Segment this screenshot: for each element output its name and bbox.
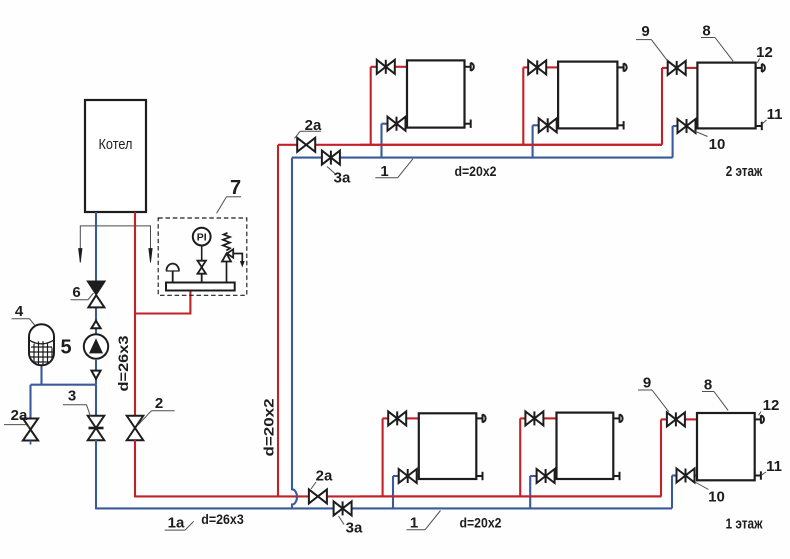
- svg-text:1: 1: [410, 515, 418, 532]
- air vent (12) 2.1: [465, 63, 474, 71]
- wire valve to radiator 1.2: [543, 417, 556, 419]
- underline for 2a floor2: [300, 130, 321, 132]
- wire to return valve 2.1: [382, 123, 388, 125]
- wire return valve to radiator 1.2: [555, 475, 557, 477]
- svg-text:d=20x2: d=20x2: [455, 163, 497, 179]
- wire to supply valve 1.3: [661, 418, 667, 420]
- svg-text:2a: 2a: [11, 407, 28, 424]
- flow arrow right (down): [149, 249, 152, 263]
- underline for 8 floor2: [701, 37, 715, 39]
- wire to supply valve 2.2: [523, 66, 528, 68]
- leader for 10 floor1: [695, 482, 709, 490]
- radiator supply valve (9) 2.2: [528, 60, 546, 74]
- wire supply main floor 1: [135, 495, 662, 497]
- svg-text:d=26x3: d=26x3: [115, 335, 131, 391]
- plug (11) 2.2: [617, 121, 623, 129]
- wire valve to radiator 1.3: [685, 418, 697, 420]
- wire drain branch down: [29, 385, 31, 419]
- leader for 2a left: [4, 425, 30, 428]
- wire return drop 2.1: [380, 124, 382, 158]
- valve 2: [127, 416, 144, 441]
- svg-text:d=20x2: d=20x2: [460, 515, 502, 531]
- svg-text:12: 12: [763, 397, 780, 414]
- valve 6 (check/safety valve): [88, 282, 104, 308]
- plug (11) 2.1: [465, 120, 471, 128]
- wire return main floor 1: [96, 507, 672, 509]
- leader for 2: [138, 411, 152, 426]
- gauge valve (small): [198, 261, 206, 283]
- leader for 1 floor1: [425, 511, 441, 530]
- expansion tank 4: [28, 324, 55, 366]
- wire to supply valve 2.1: [371, 66, 377, 68]
- svg-text:2: 2: [155, 395, 163, 412]
- wire to supply valve 2.3: [662, 67, 668, 69]
- air vent dome: [166, 264, 180, 283]
- air vent (12) 1.3: [755, 415, 764, 423]
- svg-text:8: 8: [704, 377, 712, 394]
- svg-text:PI: PI: [197, 232, 207, 244]
- wire to supply valve 1.2: [520, 417, 525, 419]
- wire valve to radiator 2.1: [395, 66, 407, 68]
- wire return drop 1.3: [671, 476, 673, 509]
- wire valve to radiator 2.3: [686, 67, 698, 69]
- valve 3: [88, 416, 105, 441]
- leader for 9 floor2: [651, 40, 667, 61]
- svg-text:9: 9: [643, 375, 651, 392]
- wire junction to valve 3: [95, 385, 97, 417]
- svg-text:12: 12: [756, 44, 773, 61]
- wire return valve to radiator 2.1: [406, 123, 408, 125]
- svg-text:8: 8: [702, 23, 710, 40]
- radiator supply valve (9) 2.1: [377, 60, 395, 74]
- pump 5 (circle with triangle): [84, 334, 108, 358]
- wire return drop 1.2: [529, 476, 531, 508]
- underline for 1 floor2: [375, 177, 397, 179]
- radiator 2.1: [407, 60, 465, 127]
- wire valve 2 down to supply main: [134, 440, 136, 497]
- wire supply drop 1.3: [660, 419, 662, 496]
- valve 2a (floor 1): [309, 489, 327, 503]
- wire return drop 2.3: [672, 126, 674, 158]
- svg-text:11: 11: [766, 458, 782, 475]
- svg-text:Котел: Котел: [99, 136, 133, 153]
- svg-text:7: 7: [230, 177, 241, 199]
- leader for 4: [12, 319, 36, 326]
- svg-text:4: 4: [15, 303, 24, 320]
- leader for 6: [71, 293, 94, 300]
- radiator supply valve (9) 1.2: [525, 411, 543, 425]
- svg-text:2a: 2a: [316, 468, 333, 485]
- svg-text:3a: 3a: [346, 520, 363, 537]
- air vent (12) 2.3: [756, 64, 765, 72]
- radiator return valve (10) 1.3: [677, 469, 695, 483]
- wire return valve to radiator 1.3: [695, 474, 698, 476]
- leader for 2a floor1: [311, 482, 316, 489]
- svg-text:10: 10: [709, 136, 726, 153]
- leader for 3a floor2: [327, 167, 336, 175]
- radiator 2.3: [697, 63, 755, 129]
- svg-text:9: 9: [641, 23, 649, 40]
- leader for 3a floor1: [339, 516, 345, 525]
- flow direction bracket line: [80, 226, 150, 262]
- check valve (triangle) above pump: [91, 321, 100, 328]
- valve 3a (floor 1): [334, 501, 352, 515]
- valve 2a (floor 2): [297, 138, 315, 152]
- wire return valve to radiator 2.3: [696, 125, 698, 127]
- radiator return valve (10) 2.1: [388, 117, 406, 131]
- wire to return valve 1.1: [393, 475, 399, 477]
- wire valve to radiator 2.2: [546, 66, 558, 68]
- radiator supply valve (9) 2.3: [668, 61, 686, 75]
- svg-text:11: 11: [767, 106, 783, 123]
- wire supply drop 1.1: [382, 418, 384, 496]
- radiator return valve (10) 2.2: [539, 118, 557, 132]
- leader for 9 floor1: [652, 390, 669, 412]
- wire supply drop 2.3: [661, 68, 663, 145]
- wire to supply valve 1.1: [383, 417, 389, 419]
- wire valve6 to pump: [95, 307, 97, 337]
- valve 3a (floor 2): [322, 151, 340, 165]
- air vent (12) 1.1: [476, 414, 485, 422]
- radiator 2.2: [558, 62, 617, 129]
- air vent (12) 2.2: [617, 63, 626, 71]
- underline for 7: [227, 196, 242, 198]
- wire return drop 1.1: [392, 476, 394, 508]
- leader for 2a floor2: [295, 131, 301, 138]
- wire supply drop 2.1: [370, 67, 372, 145]
- wire return valve to radiator 2.2: [557, 124, 558, 126]
- radiator return valve (10) 2.3: [678, 119, 696, 133]
- wire valve to radiator 1.1: [406, 417, 419, 419]
- wire tank drop: [40, 365, 42, 385]
- underline for 2: [152, 410, 175, 412]
- svg-text:3: 3: [68, 388, 76, 405]
- svg-text:1 этаж: 1 этаж: [726, 516, 763, 533]
- safety group 7 dashed box: [158, 218, 247, 295]
- flow arrow left (down): [79, 249, 82, 263]
- wire to return valve 2.2: [533, 124, 539, 126]
- wire supply drop 2.2: [522, 67, 524, 144]
- leader for 3: [63, 405, 91, 417]
- svg-text:2 этаж: 2 этаж: [726, 163, 763, 180]
- plug (11) 1.2: [613, 472, 619, 480]
- radiator 1.2: [557, 413, 614, 479]
- boiler (Котел): [85, 100, 146, 212]
- manifold bar of safety group: [166, 283, 235, 291]
- plug (11) 1.3: [755, 471, 761, 479]
- svg-text:d=26x3: d=26x3: [201, 511, 244, 527]
- underline for 1a: [165, 529, 185, 531]
- svg-text:6: 6: [72, 284, 80, 301]
- wire return main floor 2: [292, 157, 673, 159]
- wire supply drop 1.2: [519, 418, 521, 496]
- radiator 1.3: [697, 413, 755, 480]
- leader for 1a: [185, 521, 194, 530]
- svg-text:5: 5: [60, 337, 71, 359]
- valve 2a (drain, left): [23, 419, 38, 441]
- leader for 8 floor1: [714, 392, 728, 411]
- wire supply main floor 2 (over crossings): [360, 144, 662, 146]
- wire return drop 2.2: [532, 125, 534, 157]
- pressure gauge PI: [193, 228, 211, 261]
- radiator return valve (10) 1.2: [537, 469, 555, 483]
- leader for 7: [217, 197, 227, 214]
- wire junction horizontal (tank branch): [31, 384, 97, 386]
- wire pump to junction: [95, 360, 97, 385]
- wire return riser (blue) with hop over red main: [292, 158, 297, 509]
- wire supply riser d=20x2: [277, 145, 279, 497]
- leader for 1 floor2: [398, 159, 413, 178]
- underline for 8 floor1: [702, 391, 714, 393]
- radiator supply valve (9) 1.3: [667, 412, 685, 426]
- leader for 10 floor2: [694, 131, 708, 137]
- underline for 1 floor1: [407, 529, 426, 531]
- svg-text:1a: 1a: [168, 515, 185, 532]
- leader for 8 floor2: [715, 38, 733, 62]
- wire supply main floor 1 (over crossings): [360, 495, 662, 497]
- underline for 9 floor1: [638, 389, 652, 391]
- svg-text:3a: 3a: [334, 170, 351, 187]
- safety relief valve with spring: [222, 233, 245, 283]
- radiator return valve (10) 1.1: [399, 469, 417, 483]
- wire return valve to radiator 1.1: [417, 475, 419, 477]
- leader for 12 floor1: [759, 412, 762, 416]
- leader for 11 floor1: [762, 472, 766, 475]
- radiator supply valve (9) 1.1: [388, 411, 406, 425]
- wire to return valve 1.3: [672, 474, 677, 476]
- radiator 1.1: [419, 413, 477, 479]
- wire to return valve 2.3: [673, 125, 678, 127]
- air vent (12) 1.2: [613, 414, 622, 422]
- underline for 9 floor2: [636, 39, 651, 41]
- wire drain stub: [30, 441, 32, 445]
- leader for 12 floor2: [758, 59, 760, 63]
- svg-text:10: 10: [708, 489, 725, 506]
- wire boiler supply (red) down: [134, 212, 136, 417]
- wire to return valve 1.2: [530, 475, 536, 477]
- wire valve 3 down to return main: [95, 440, 97, 509]
- leader for 11 floor2: [762, 120, 766, 124]
- check valve (triangle) below pump: [91, 371, 100, 379]
- wire safety group branch (red): [135, 291, 190, 314]
- wire supply main floor 2: [278, 144, 662, 146]
- wire boiler return (blue) down to valve 6: [95, 212, 97, 282]
- plug (11) 2.3: [756, 122, 762, 130]
- plug (11) 1.1: [476, 472, 482, 480]
- svg-text:d=20x2: d=20x2: [261, 398, 277, 456]
